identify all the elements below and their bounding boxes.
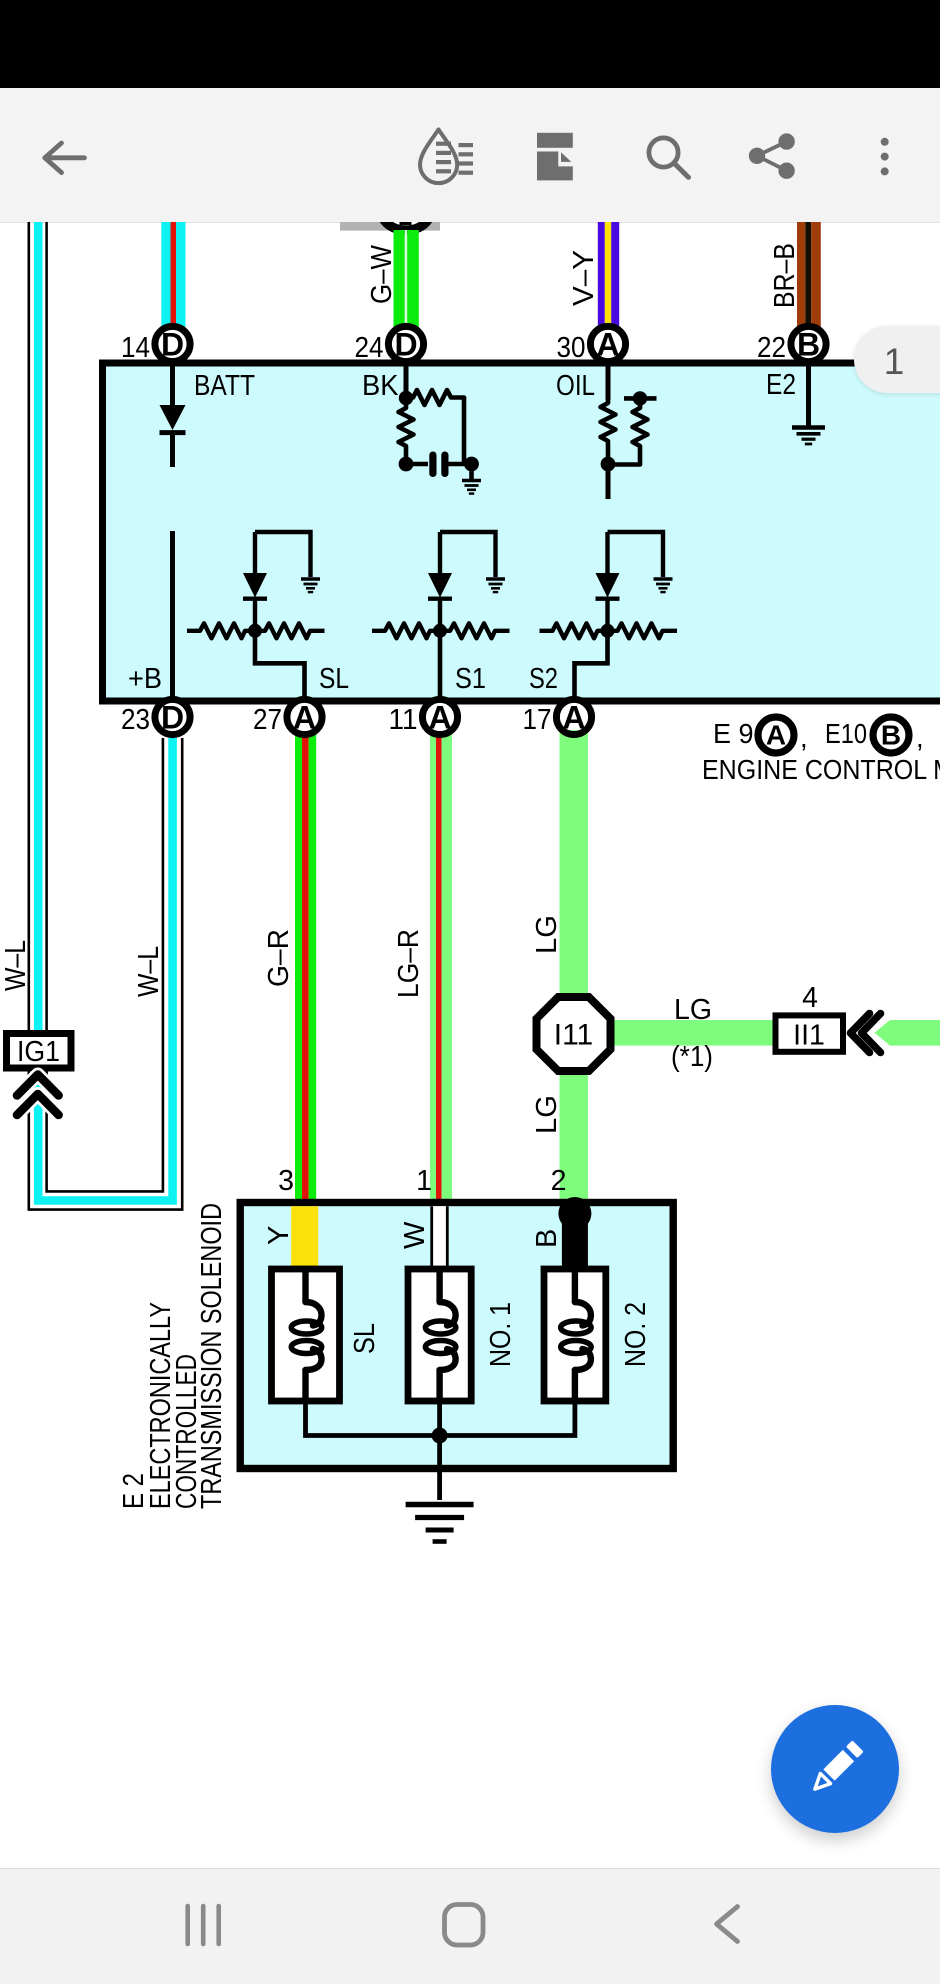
wire pin30 down (606, 365, 611, 400)
svg-text:30: 30 (557, 332, 586, 364)
svg-text:4: 4 (802, 982, 818, 1014)
svg-text:D: D (161, 700, 184, 736)
pin 1 label (416, 1165, 432, 1197)
wire +B (to pin 23) (170, 531, 175, 699)
resistor R-OIL2 (vertical) (608, 405, 648, 465)
connector circle A (E9) (758, 717, 794, 753)
node junction solenoid commons (432, 1428, 448, 1444)
chevrons (wire continues marker) (851, 1014, 881, 1053)
svg-text:NO. 1: NO. 1 (485, 1302, 517, 1367)
svg-text:I11: I11 (554, 1019, 593, 1052)
label G-W (366, 244, 398, 304)
svg-text:A: A (596, 327, 619, 363)
search icon (649, 138, 689, 178)
node stub OIL top-right (624, 391, 657, 405)
pin 3 label (278, 1165, 294, 1197)
note E10 connector label (825, 718, 867, 749)
svg-text:BK: BK (362, 370, 399, 402)
wire Y inside box (291, 1206, 318, 1267)
ground (E2) (792, 428, 825, 445)
label LG (upper) (531, 915, 563, 954)
diode (driver SL) (243, 532, 267, 631)
connector II1 (776, 1015, 844, 1051)
comma (916, 722, 924, 753)
ground (BK network) (462, 464, 481, 494)
pin 30 label (557, 332, 586, 364)
wire W inside box (430, 1206, 448, 1269)
svg-text:A: A (293, 700, 316, 736)
svg-text:A: A (428, 700, 451, 736)
svg-text:3: 3 (278, 1165, 294, 1197)
node junction BK top (399, 391, 413, 405)
wire NO.1 bottom through junction to ground (437, 1398, 442, 1500)
wire S2 output to pin (575, 631, 608, 699)
label W-L (left run) (0, 940, 32, 991)
svg-text:(*1): (*1) (671, 1041, 713, 1073)
ground (driver SL) (301, 579, 320, 592)
label OIL (556, 370, 595, 402)
svg-text:B: B (881, 720, 901, 751)
node junction BK bottom-right (464, 457, 479, 472)
edit floating action button (771, 1705, 899, 1833)
label SL (349, 1323, 381, 1354)
back nav icon (717, 1907, 738, 1942)
label BATT (194, 370, 255, 402)
share icon (749, 133, 795, 178)
svg-text:W–L: W–L (133, 946, 165, 997)
wire NO.2 bottom to junction (440, 1398, 575, 1436)
shield/splice chevrons below IG1 (17, 1075, 59, 1116)
diode D1 (BATT input) (160, 405, 186, 467)
svg-text:B: B (797, 327, 820, 363)
wire B inside box (with round cap) (558, 1197, 591, 1272)
svg-text:W–L: W–L (0, 940, 32, 991)
wire G-W to pin 24 (394, 230, 419, 327)
node junction (driver S2) (601, 624, 615, 638)
svg-text:D: D (161, 327, 184, 363)
svg-text:+B: +B (128, 663, 162, 695)
svg-text:W: W (399, 1221, 431, 1249)
terminal A (pin 27) ring (287, 699, 322, 735)
solenoid assembly box E2 (240, 1203, 673, 1469)
capacitor C-BK (429, 452, 471, 478)
label LG (lower) (531, 1095, 563, 1134)
solenoid NO. 2 winding coil (561, 1273, 591, 1399)
wire LG-R from pin 11 (430, 731, 452, 1200)
svg-text:S2: S2 (529, 663, 558, 695)
svg-text:G–W: G–W (366, 244, 398, 304)
svg-text:IG1: IG1 (17, 1036, 60, 1068)
svg-text:A: A (562, 700, 585, 736)
svg-text:,: , (916, 722, 924, 753)
svg-text:23: 23 (121, 704, 150, 736)
svg-text:BATT: BATT (194, 370, 255, 402)
svg-text:,: , (800, 722, 808, 753)
svg-text:A: A (766, 720, 786, 751)
recents nav icon (188, 1906, 219, 1944)
resistor R-BK2 (vertical) (399, 405, 414, 462)
diode (driver S1) (428, 532, 452, 631)
wire S1 output to pin (438, 631, 443, 699)
label LG-R (393, 929, 425, 998)
pin 23 label (121, 704, 150, 736)
svg-text:NO. 2: NO. 2 (620, 1302, 652, 1367)
node I11 (octagon splice) (537, 997, 611, 1071)
svg-text:G–R: G–R (263, 929, 295, 987)
resistor R-OIL1 (vertical) (601, 400, 616, 462)
wire W-L loop outer outline (29, 222, 182, 1210)
solenoid SL rectangle (272, 1269, 340, 1401)
back arrow icon (45, 143, 85, 173)
wire G-R from pin 27 (295, 731, 316, 1200)
pin 22 label (757, 332, 786, 364)
label BR-B (769, 243, 801, 308)
solenoid NO. 1 winding coil (425, 1273, 455, 1399)
pin 11 label (389, 704, 418, 736)
solenoid NO. 2 rectangle (544, 1269, 606, 1401)
wire LG stub to screen edge (875, 1020, 940, 1046)
svg-text:E10: E10 (825, 718, 867, 749)
svg-text:SL: SL (319, 663, 349, 695)
label V-Y (568, 250, 600, 306)
wire W-L cyan stripe (38, 222, 172, 1201)
comma (800, 722, 808, 753)
pin 24 label (355, 332, 384, 364)
wire pin22 down (806, 365, 811, 426)
status bar (0, 0, 940, 88)
terminal D (pin 23) ring (155, 699, 190, 735)
page number pill (854, 326, 940, 393)
label +B (128, 663, 162, 695)
note E 9 connector label (713, 718, 754, 749)
label LG (horizontal run) (674, 994, 712, 1026)
svg-text:LG: LG (531, 915, 563, 954)
pin 4 label (802, 982, 818, 1014)
label SL (319, 663, 349, 695)
label S1 (455, 663, 486, 695)
pin 17 label (523, 704, 552, 736)
ground (driver S1) (486, 579, 505, 592)
svg-text:V–Y: V–Y (568, 250, 600, 306)
svg-text:24: 24 (355, 332, 384, 364)
wire L-R to pin 14 (161, 222, 185, 327)
svg-text:TRANSMISSION SOLENOID: TRANSMISSION SOLENOID (196, 1203, 228, 1509)
svg-text:2: 2 (551, 1165, 567, 1197)
driver SL: clamp bracket to ground (255, 532, 311, 577)
svg-text:BR–B: BR–B (769, 243, 801, 308)
resistor pair (driver S2) (540, 623, 678, 638)
diode (driver S2) (596, 532, 620, 631)
terminal A (pin 17) ring (556, 699, 591, 735)
svg-text:E 9: E 9 (713, 718, 754, 749)
connector IG1 (7, 1034, 72, 1069)
wire V-Y to pin 30 (598, 222, 619, 327)
ECM box (Engine Control Module) (103, 363, 940, 701)
wire SL bottom to junction (306, 1398, 440, 1436)
svg-text:22: 22 (757, 332, 786, 364)
solenoid NO. 1 rectangle (408, 1269, 471, 1401)
svg-text:Y: Y (263, 1226, 295, 1245)
label G-R (263, 929, 295, 987)
svg-text:27: 27 (253, 704, 282, 736)
component name: E 2 ELECTRONICALLY CONTROLLED TRANSMISSION SOLENOID (118, 1203, 228, 1509)
svg-text:D: D (394, 327, 417, 363)
driver S2: clamp bracket to ground (608, 532, 664, 577)
home nav icon (445, 1905, 484, 1946)
connector remnant above G-W wire (340, 187, 440, 235)
svg-text:LG: LG (674, 994, 712, 1026)
node junction OIL bottom (601, 457, 616, 499)
label B (531, 1229, 563, 1248)
solenoid SL winding coil (291, 1273, 321, 1399)
svg-text:ENGINE CONTROL M: ENGINE CONTROL M (702, 754, 940, 785)
terminal A (pin 30) (590, 326, 625, 362)
terminal B (pin 22) (791, 326, 826, 362)
svg-text:SL: SL (349, 1323, 381, 1354)
terminal D (pin 24) (388, 326, 423, 362)
overflow menu icon (881, 138, 889, 176)
node junction (driver SL) (248, 624, 262, 638)
pin 14 label (121, 332, 150, 364)
svg-text:17: 17 (523, 704, 552, 736)
svg-text:1: 1 (416, 1165, 432, 1197)
pin 27 label (253, 704, 282, 736)
svg-text:LG–R: LG–R (393, 929, 425, 998)
wire BR-B to pin 22 (797, 222, 821, 327)
label (*1) (671, 1041, 713, 1073)
svg-text:E2: E2 (766, 369, 796, 401)
connector circle B (E10) (873, 717, 909, 753)
label NO. 2 (620, 1302, 652, 1367)
label NO. 1 (485, 1302, 517, 1367)
wire LG horizontal from I11 to II1 (600, 1020, 775, 1046)
label BK (362, 370, 399, 402)
wire W-L loop inner outline (47, 222, 163, 1191)
note ENGINE CONTROL MODULE (702, 754, 940, 785)
terminal A (pin 11) ring (422, 699, 457, 735)
wire SL output to pin (255, 631, 305, 699)
node junction (driver S1) (433, 624, 447, 638)
resistor pair (driver S1) (372, 623, 510, 638)
label S2 (529, 663, 558, 695)
driver S1: clamp bracket to ground (440, 532, 496, 577)
wire LG from pin 17 (560, 730, 589, 1200)
terminal D (pin 14) (155, 326, 190, 362)
ground (driver S2) (654, 579, 673, 592)
ground (solenoid common) (406, 1505, 474, 1542)
wire pin24 down (404, 365, 409, 398)
resistor pair (driver SL) (187, 623, 325, 638)
ink/annotation drop icon (420, 130, 473, 184)
svg-text:14: 14 (121, 332, 150, 364)
label Y (263, 1226, 295, 1245)
page/thumbnail icon (537, 133, 573, 181)
node junction BK bottom-left (399, 457, 428, 472)
label W-L (right run) (133, 946, 165, 997)
terminal A (pin 11) white fill (422, 699, 457, 734)
pin 2 label (551, 1165, 567, 1197)
wire pin14 to diode (170, 365, 175, 405)
svg-text:LG: LG (531, 1095, 563, 1134)
terminal A (pin 17) white fill (556, 699, 591, 734)
svg-text:S1: S1 (455, 663, 486, 695)
terminal D (pin 23) white fill (155, 699, 190, 734)
label W (399, 1221, 431, 1249)
label E2 (766, 369, 796, 401)
svg-text:OIL: OIL (556, 370, 595, 402)
svg-text:II1: II1 (793, 1020, 825, 1052)
resistor R-BK1 (horizontal) (406, 390, 464, 464)
terminal A (pin 27) white fill (287, 699, 322, 734)
svg-text:B: B (531, 1229, 563, 1248)
svg-text:11: 11 (389, 704, 418, 736)
